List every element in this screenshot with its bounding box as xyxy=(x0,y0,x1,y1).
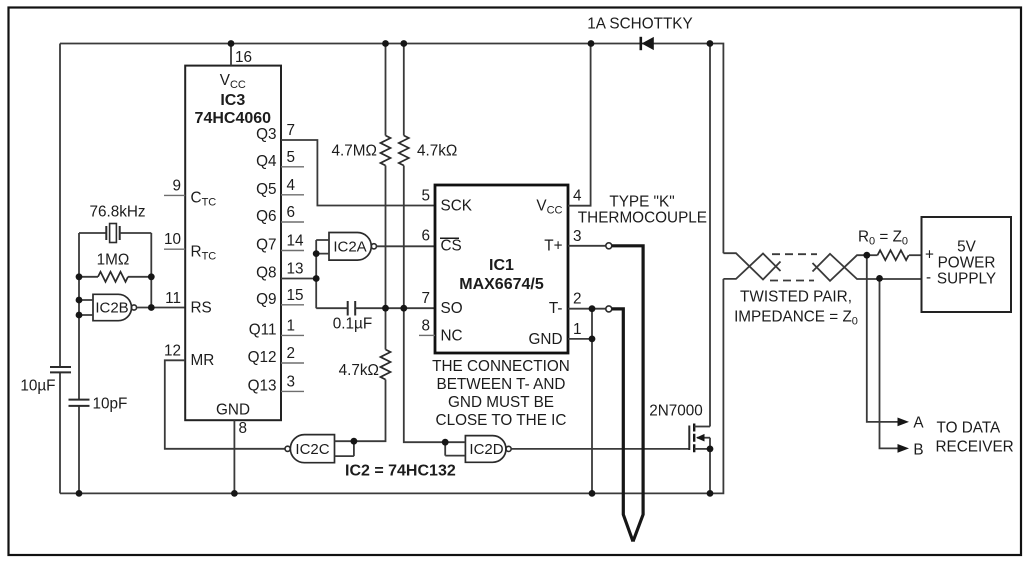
wire pin 9 CTC stub xyxy=(164,194,185,196)
wire Q5 pin4 stub xyxy=(281,194,304,196)
svg-text:RECEIVER: RECEIVER xyxy=(936,439,1014,456)
wire IC2A input stubs xyxy=(316,240,329,254)
wire NC pin8 stub xyxy=(419,334,435,336)
IC U3 74HC4060 box xyxy=(185,66,281,421)
svg-text:GND: GND xyxy=(529,331,563,348)
wire crystal loop right vertical xyxy=(150,233,152,308)
resistor R 1Mohm xyxy=(79,276,151,278)
svg-text:6: 6 xyxy=(421,227,430,244)
svg-text:T+: T+ xyxy=(544,237,562,254)
svg-text:10pF: 10pF xyxy=(93,396,128,413)
wire Q12 pin2 stub xyxy=(281,362,304,364)
wire crystal loop left vertical (upper) xyxy=(78,233,80,400)
svg-text:+: + xyxy=(925,247,934,264)
node dots SO line xyxy=(382,305,389,312)
svg-text:IC2A: IC2A xyxy=(333,239,366,256)
svg-text:MAX6674/5: MAX6674/5 xyxy=(459,276,544,293)
transistor Q1 channel segments xyxy=(693,424,695,453)
node dot B tap xyxy=(876,275,883,282)
resistor R0 = Z0 xyxy=(878,250,909,260)
transistor Q1 source lead xyxy=(694,448,710,450)
box 5V power supply xyxy=(922,217,1012,312)
wire drain vertical from rail xyxy=(709,44,711,427)
svg-text:TWISTED PAIR,: TWISTED PAIR, xyxy=(740,289,852,306)
wire bottom ground rail xyxy=(60,279,723,494)
svg-text:THE CONNECTION: THE CONNECTION xyxy=(432,358,570,375)
svg-text:GND MUST BE: GND MUST BE xyxy=(448,394,554,411)
svg-text:VCC: VCC xyxy=(536,198,562,217)
wire B branch xyxy=(880,278,899,448)
wire pin 10 RTC stub xyxy=(164,248,185,250)
svg-text:NC: NC xyxy=(441,327,463,344)
wire crystal top lead right xyxy=(120,232,152,234)
wire IC2D output to MOSFET gate xyxy=(511,448,689,450)
svg-text:Q5: Q5 xyxy=(256,181,276,198)
wire Q6 pin6 stub xyxy=(281,221,304,223)
twisted pair left crossing xyxy=(723,253,780,279)
svg-text:IC1: IC1 xyxy=(489,257,514,274)
svg-text:R0 = Z0: R0 = Z0 xyxy=(858,229,908,248)
svg-text:IC2 = 74HC132: IC2 = 74HC132 xyxy=(345,463,456,480)
wire pin 12 MR loop to IC2C output xyxy=(165,360,285,449)
svg-text:RS: RS xyxy=(191,300,212,317)
svg-text:2: 2 xyxy=(287,345,296,362)
svg-text:TO DATA: TO DATA xyxy=(937,420,1002,437)
nand gate IC2A xyxy=(329,233,371,261)
wire T-/GND vertical to ground rail xyxy=(591,309,593,494)
svg-text:14: 14 xyxy=(287,233,305,250)
nand gate IC2C mirrored xyxy=(290,435,334,463)
wire T- pin2 lead xyxy=(568,308,606,310)
svg-text:5V: 5V xyxy=(957,239,977,256)
wire Q4 pin5 stub xyxy=(281,166,304,168)
node dot MOSFET source xyxy=(707,446,714,453)
svg-text:6: 6 xyxy=(287,204,296,221)
svg-text:Q7: Q7 xyxy=(256,237,276,254)
svg-text:1: 1 xyxy=(287,317,296,334)
node dot R0 left xyxy=(863,252,870,259)
svg-text:5: 5 xyxy=(287,149,296,166)
node dot IC2D inputs xyxy=(442,439,449,446)
wire A branch xyxy=(867,255,899,422)
node dots IC2A bracket xyxy=(313,250,320,257)
svg-text:1MΩ: 1MΩ xyxy=(97,252,130,269)
svg-text:4: 4 xyxy=(573,188,582,205)
svg-text:15: 15 xyxy=(287,287,304,304)
svg-text:Q8: Q8 xyxy=(256,265,276,282)
wire R0 to supply plus xyxy=(909,254,922,256)
svg-text:4.7kΩ: 4.7kΩ xyxy=(339,362,379,379)
svg-text:13: 13 xyxy=(287,261,304,278)
node dots bottom rail xyxy=(76,490,83,497)
capacitor C 10uF xyxy=(50,367,71,372)
svg-text:IC2C: IC2C xyxy=(295,441,329,458)
wire IC3 pin8 GND stub to ground rail xyxy=(233,420,235,493)
wire left main vertical (lower) xyxy=(59,372,61,493)
twisted pair right crossing xyxy=(813,254,922,281)
svg-text:Q6: Q6 xyxy=(256,208,276,225)
svg-text:16: 16 xyxy=(235,49,252,66)
wire source vertical to ground rail xyxy=(709,438,711,494)
wire top VCC rail xyxy=(60,44,723,254)
wire Q11 pin1 stub xyxy=(281,334,304,336)
svg-text:0.1µF: 0.1µF xyxy=(333,316,372,333)
svg-text:9: 9 xyxy=(172,177,181,194)
resistor R 4.7kohm upper xyxy=(399,136,409,166)
node dots T- GND xyxy=(589,305,596,312)
diode D1 1A schottky xyxy=(639,37,642,50)
node dots top rail xyxy=(228,40,235,47)
transistor Q1 drain lead xyxy=(694,426,710,428)
svg-text:IC3: IC3 xyxy=(220,92,245,109)
wire crystal loop left vertical (lower) xyxy=(78,406,80,493)
svg-text:2: 2 xyxy=(573,291,582,308)
transistor Q1 2N7000 gate bar xyxy=(688,426,690,451)
svg-text:8: 8 xyxy=(239,420,248,437)
thermocouple probe wires xyxy=(612,246,643,542)
IC U1 MAX6674/5 box xyxy=(435,185,568,353)
svg-text:SO: SO xyxy=(441,300,463,317)
wire IC2B input stubs xyxy=(79,300,93,315)
wire IC2C input stubs and bracket xyxy=(335,441,354,456)
svg-text:CS: CS xyxy=(441,237,462,254)
crystal X1 76.8kHz xyxy=(106,226,119,240)
wire IC2A output to CS pin xyxy=(377,245,436,247)
wire IC2D input stubs and bracket xyxy=(445,442,465,455)
wire 4.7kohm branch vertical xyxy=(404,44,445,443)
svg-text:1A SCHOTTKY: 1A SCHOTTKY xyxy=(587,16,692,33)
resistor R 4.7Mohm xyxy=(381,136,391,166)
transistor Q1 body lead and arrow xyxy=(697,437,710,439)
nand gate IC2B xyxy=(93,294,132,320)
node T+ open terminal xyxy=(606,243,612,249)
svg-text:7: 7 xyxy=(421,290,430,307)
wire 0.1uF right lead to SO pin xyxy=(355,307,435,309)
svg-text:10: 10 xyxy=(164,231,181,248)
capacitor C 10pF xyxy=(69,400,90,406)
wire GND pin1 lead xyxy=(568,338,592,340)
wire top conductor to R0 xyxy=(867,254,878,256)
wire left main vertical (upper) xyxy=(59,44,61,368)
svg-text:SUPPLY: SUPPLY xyxy=(937,271,996,288)
svg-text:Q12: Q12 xyxy=(248,349,277,366)
svg-text:POWER: POWER xyxy=(938,254,996,271)
wire Q8 pin13 to IC2A bracket xyxy=(281,278,316,280)
svg-text:1: 1 xyxy=(573,321,582,338)
svg-text:GND: GND xyxy=(216,402,250,419)
svg-text:Q3: Q3 xyxy=(256,126,276,143)
svg-text:IMPEDANCE = Z0: IMPEDANCE = Z0 xyxy=(734,309,858,328)
wire VCC pin4 to rail xyxy=(568,44,591,206)
svg-text:4.7MΩ: 4.7MΩ xyxy=(332,143,377,160)
svg-text:Q11: Q11 xyxy=(249,321,277,338)
nand gate IC2D xyxy=(465,436,506,463)
svg-text:T-: T- xyxy=(549,300,563,317)
svg-text:10µF: 10µF xyxy=(20,378,55,395)
svg-text:MR: MR xyxy=(191,352,215,369)
svg-text:Q13: Q13 xyxy=(248,377,277,394)
svg-text:IC2D: IC2D xyxy=(469,441,503,458)
resistor R 4.7kohm lower xyxy=(381,350,391,380)
wire IC2B output to RS pin 11 xyxy=(137,307,186,309)
svg-text:5: 5 xyxy=(421,188,430,205)
svg-text:CLOSE TO THE IC: CLOSE TO THE IC xyxy=(436,412,567,429)
svg-text:7: 7 xyxy=(287,122,296,139)
svg-text:THERMOCOUPLE: THERMOCOUPLE xyxy=(578,210,707,227)
svg-text:Q9: Q9 xyxy=(256,291,276,308)
svg-text:2N7000: 2N7000 xyxy=(649,403,703,420)
node dot IC2C inputs xyxy=(351,438,358,445)
wire T+ pin3 lead xyxy=(568,245,606,247)
twisted pair dashed middle xyxy=(772,253,817,255)
svg-text:SCK: SCK xyxy=(441,198,473,215)
arrow B xyxy=(898,444,910,453)
wire 4.7Mohm branch vertical xyxy=(354,44,386,442)
svg-text:RTC: RTC xyxy=(191,244,217,263)
wire Q13 pin3 stub xyxy=(281,390,304,392)
wire 0.1uF left lead xyxy=(316,307,348,309)
svg-text:BETWEEN T- AND: BETWEEN T- AND xyxy=(437,376,566,393)
wire Q7 pin14 stub xyxy=(281,250,304,252)
svg-text:12: 12 xyxy=(164,342,181,359)
wire IC3 pin16 VCC stub xyxy=(230,44,232,66)
svg-text:-: - xyxy=(926,269,931,286)
svg-text:Q4: Q4 xyxy=(256,153,277,170)
wire Q3 pin7 to SCK xyxy=(281,140,435,206)
wire crystal top lead left xyxy=(79,232,106,234)
arrow A xyxy=(898,418,910,427)
svg-text:4: 4 xyxy=(287,177,296,194)
node dots crystal loop xyxy=(76,273,83,280)
svg-text:A: A xyxy=(913,415,924,432)
svg-text:11: 11 xyxy=(165,290,181,307)
svg-text:IC2B: IC2B xyxy=(95,300,128,317)
svg-text:8: 8 xyxy=(421,317,430,334)
svg-text:CTC: CTC xyxy=(191,190,217,209)
svg-text:4.7kΩ: 4.7kΩ xyxy=(417,143,457,160)
svg-text:3: 3 xyxy=(287,373,296,390)
wire IC2A input bracket vertical xyxy=(315,240,317,308)
wire Q9 pin15 stub xyxy=(281,304,304,306)
capacitor C 0.1uF xyxy=(348,301,356,316)
svg-text:76.8kHz: 76.8kHz xyxy=(89,204,145,221)
svg-text:B: B xyxy=(913,442,923,459)
node T- open terminal xyxy=(606,306,612,312)
svg-text:74HC4060: 74HC4060 xyxy=(195,110,272,127)
svg-text:VCC: VCC xyxy=(220,72,246,91)
svg-text:3: 3 xyxy=(573,228,582,245)
svg-text:TYPE "K": TYPE "K" xyxy=(609,194,674,211)
